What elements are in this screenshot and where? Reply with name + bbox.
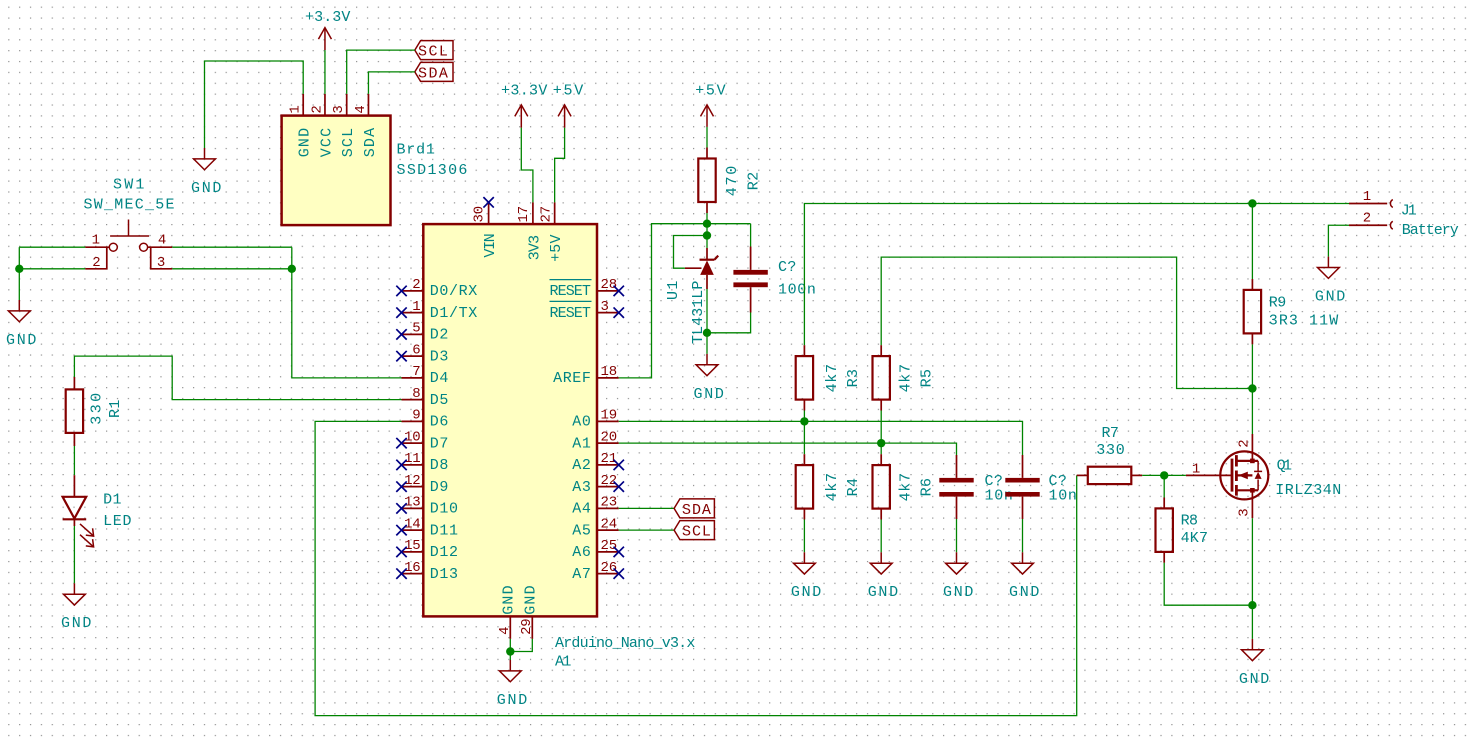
junction R2 bottom [703, 220, 711, 228]
svg-text:GND: GND [501, 585, 518, 615]
svg-text:A4: A4 [572, 501, 591, 518]
wire R9 bottom to Q1 drain [1251, 344, 1253, 434]
svg-text:D4: D4 [430, 370, 449, 387]
no-connect A2 pin 21 [614, 460, 624, 470]
svg-text:24: 24 [601, 516, 617, 532]
wire U1 anode to GND [706, 289, 708, 354]
A1 pin 26 A7 [572, 560, 618, 583]
no-connect A7 pin 26 [614, 568, 624, 578]
power +5V (Arduino) [553, 83, 584, 128]
connector J1 pin 2 [1349, 211, 1393, 230]
svg-text:3: 3 [601, 299, 609, 315]
svg-text:2: 2 [309, 105, 325, 113]
no-connect D10 [396, 503, 406, 513]
wire Q1 source to GND [1251, 518, 1253, 639]
no-connect D0/RX [396, 286, 406, 296]
wire VCC to +3.3V [324, 50, 326, 94]
svg-text:D9: D9 [430, 479, 449, 496]
ground (OLED) [191, 148, 222, 197]
svg-text:RESET: RESET [550, 305, 592, 322]
no-connect A3 pin 22 [614, 481, 624, 491]
svg-text:2: 2 [1363, 211, 1371, 227]
reference J1 [1401, 203, 1418, 220]
wire A0 to C (10n #2) [619, 421, 1023, 455]
svg-text:SSD1306: SSD1306 [397, 162, 469, 179]
svg-text:Q1: Q1 [1277, 458, 1293, 475]
A1 pin 22 A3 [572, 473, 618, 496]
svg-text:23: 23 [601, 495, 617, 511]
LED D1 [63, 475, 133, 547]
OLED display Brd1 SSD1306 [282, 116, 391, 226]
global label SDA (right) [674, 499, 714, 519]
wire R9 top [1251, 204, 1253, 280]
no-connect D13 [396, 568, 406, 578]
A1 pin 3 RESET [550, 299, 619, 322]
transistor Q1 IRLZ34N [1186, 434, 1342, 518]
A1 pin 4 GND [497, 585, 518, 639]
svg-text:A3: A3 [572, 479, 591, 496]
svg-text:R3: R3 [845, 368, 862, 387]
Brd1 pin 3 SCL [331, 94, 357, 157]
ground (J1) [1315, 257, 1346, 306]
A1 pin 29 GND [519, 585, 539, 639]
svg-text:R5: R5 [919, 368, 936, 387]
resistor R2 470 [698, 148, 762, 214]
svg-text:SW_MEC_5E: SW_MEC_5E [84, 197, 176, 214]
wire D6 to R7 (long bottom route) [315, 421, 1077, 715]
junction source node [1248, 601, 1256, 609]
resistor R4 4k7 [796, 454, 862, 519]
resistor R5 4k7 [873, 345, 936, 410]
svg-text:GND: GND [497, 692, 528, 709]
wire R5 top to Q1 drain node [881, 257, 1252, 388]
svg-text:GND: GND [868, 584, 899, 601]
svg-text:SDA: SDA [418, 65, 449, 82]
wire AREF to R2 node [619, 224, 751, 378]
A1 pin 2 D0/RX [402, 277, 478, 300]
svg-text:GND: GND [191, 180, 222, 197]
SW1 pin 1 [85, 233, 109, 249]
junction U1 anode / C node [703, 329, 711, 337]
ground (SW1 left) [6, 300, 37, 349]
svg-text:SCL: SCL [418, 44, 449, 61]
wire SCL to OLED pin3 [347, 50, 415, 94]
svg-text:R4: R4 [845, 477, 862, 496]
svg-text:14: 14 [404, 516, 420, 532]
no-connect D3 [396, 351, 406, 361]
svg-text:11: 11 [404, 451, 420, 467]
svg-text:3R3 11W: 3R3 11W [1269, 313, 1339, 330]
SW1 pin 3 [151, 247, 173, 271]
no-connect VIN [483, 197, 493, 207]
svg-text:D5: D5 [430, 392, 449, 409]
svg-text:Brd1: Brd1 [397, 142, 436, 159]
A1 pin 1 D1/TX [402, 299, 478, 322]
svg-text:A2: A2 [572, 457, 591, 474]
svg-text:GND: GND [523, 585, 540, 615]
svg-text:IRLZ34N: IRLZ34N [1275, 482, 1342, 499]
svg-text:1: 1 [288, 105, 304, 113]
power +5V (R2) [695, 83, 726, 127]
svg-text:SDA: SDA [682, 502, 712, 519]
svg-text:LED: LED [103, 513, 132, 530]
resistor R6 4k7 [873, 454, 936, 519]
svg-text:R2: R2 [746, 171, 763, 190]
reference Brd1 [397, 142, 436, 159]
svg-text:1: 1 [412, 299, 420, 315]
wire R8 bottom to source node [1164, 563, 1252, 605]
global label SCL (right) [674, 521, 714, 541]
svg-text:2: 2 [92, 255, 100, 271]
junction A0 divider [800, 417, 808, 425]
wire R5-R6 column [880, 411, 882, 455]
svg-text:18: 18 [601, 364, 617, 380]
Brd1 pin 2 VCC [309, 94, 335, 157]
wire SW1 to D4 [292, 247, 402, 378]
svg-text:VIN: VIN [482, 233, 499, 258]
reference SW1 [113, 177, 145, 194]
svg-text:100n: 100n [778, 282, 817, 299]
svg-text:19: 19 [601, 408, 617, 424]
svg-text:GND: GND [791, 584, 822, 601]
svg-text:GND: GND [297, 127, 314, 157]
svg-text:4K7: 4K7 [1181, 530, 1209, 547]
A1 pin 28 RESET [550, 277, 619, 300]
no-connect D11 [396, 525, 406, 535]
svg-text:R1: R1 [107, 399, 124, 418]
connector J1 Battery pin 1 [1349, 189, 1393, 208]
ground (R6) [868, 552, 899, 601]
svg-text:1: 1 [1192, 462, 1200, 478]
svg-text:26: 26 [601, 560, 617, 576]
svg-text:VCC: VCC [319, 127, 336, 157]
power +3.3V (Arduino) [501, 83, 548, 128]
junction battery+ / R9 [1248, 199, 1256, 207]
svg-text:D0/RX: D0/RX [430, 283, 478, 300]
svg-text:SCL: SCL [682, 524, 712, 541]
wire A5 to SCL [619, 529, 674, 531]
svg-text:GND: GND [694, 386, 725, 403]
resistor R9 3R3 11W [1244, 279, 1339, 344]
A1 pin 8 D5 [402, 386, 450, 409]
svg-text:D3: D3 [430, 348, 449, 365]
svg-text:3V3: 3V3 [526, 234, 543, 260]
svg-text:+5V: +5V [695, 83, 726, 100]
junction gate / R8 [1160, 471, 1168, 479]
A1 pin 21 A2 [572, 451, 618, 474]
svg-text:7: 7 [412, 364, 420, 380]
wire R1 to D1 [73, 446, 75, 475]
svg-text:29: 29 [519, 618, 535, 634]
A1 pin 19 A0 [572, 408, 618, 431]
wire SW1 pin2 left [19, 268, 85, 270]
wire R3-R4 column [803, 411, 805, 455]
svg-text:15: 15 [404, 538, 420, 554]
wire C10n#2 to GND [1022, 519, 1024, 552]
wire battery+ rail [804, 204, 1349, 346]
junction SW1 left [15, 265, 23, 273]
svg-text:4k7: 4k7 [824, 472, 841, 501]
svg-text:A6: A6 [572, 544, 591, 561]
svg-text:GND: GND [61, 615, 92, 632]
svg-text:2: 2 [1236, 440, 1252, 448]
A1 pin 15 D12 [402, 538, 459, 561]
svg-text:9: 9 [412, 408, 420, 424]
no-connect D8 [396, 460, 406, 470]
svg-text:D6: D6 [430, 414, 449, 431]
svg-text:+5V: +5V [553, 83, 584, 100]
ground (D1) [61, 583, 92, 632]
svg-text:D8: D8 [430, 457, 449, 474]
A1 pin 7 D4 [402, 364, 450, 387]
A1 pin 17 3V3 [516, 202, 543, 260]
junction SW1 right [288, 265, 296, 273]
wire R7 to Q1 gate [1142, 474, 1186, 476]
no-connect D12 [396, 547, 406, 557]
value Arduino_Nano_v3.x [555, 635, 696, 652]
shunt regulator U1 TL431LP [665, 248, 718, 344]
svg-text:A0: A0 [572, 414, 591, 431]
svg-text:SDA: SDA [362, 127, 379, 157]
resistor R7 330 [1077, 425, 1143, 484]
resistor R8 4K7 [1156, 498, 1209, 563]
svg-text:A1: A1 [572, 435, 591, 452]
svg-text:10n: 10n [1049, 487, 1078, 504]
wire R6 to GND [880, 520, 882, 553]
svg-text:28: 28 [601, 277, 617, 293]
A1 pin 25 A6 [572, 538, 618, 561]
no-connect D9 [396, 481, 406, 491]
ground (C 10n #1) [943, 552, 974, 601]
wire +3.3V to 3V3 [521, 128, 533, 203]
svg-text:SW1: SW1 [113, 177, 145, 194]
ground (Q1 source) [1239, 639, 1270, 688]
svg-text:10: 10 [404, 429, 420, 445]
svg-text:GND: GND [1009, 584, 1040, 601]
svg-text:4k7: 4k7 [898, 363, 915, 392]
wire U1 ref loop [674, 236, 708, 269]
A1 pin 24 A5 [572, 516, 618, 539]
svg-text:3: 3 [331, 105, 347, 113]
A1 pin 11 D8 [402, 451, 450, 474]
svg-text:R9: R9 [1269, 294, 1287, 311]
svg-text:330: 330 [89, 392, 106, 425]
A1 pin 5 D2 [402, 321, 450, 344]
svg-text:22: 22 [601, 473, 617, 489]
power +3.3V (OLED VCC) [305, 9, 351, 50]
wire D1 to GND [73, 526, 75, 583]
ground (C 10n #2) [1009, 552, 1040, 601]
A1 pin 10 D7 [402, 429, 450, 452]
A1 pin 14 D11 [402, 516, 459, 539]
svg-text:R6: R6 [919, 477, 936, 496]
svg-text:U1: U1 [665, 280, 682, 300]
svg-text:4: 4 [158, 233, 166, 249]
global label SCL (top) [415, 41, 453, 61]
no-connect D1/TX [396, 307, 406, 317]
svg-text:GND: GND [6, 332, 37, 349]
svg-text:D7: D7 [430, 435, 449, 452]
svg-text:AREF: AREF [553, 370, 591, 387]
SW1 pin 2 [85, 247, 107, 271]
svg-text:3: 3 [157, 255, 165, 271]
svg-text:+3.3V: +3.3V [501, 83, 548, 100]
wire A4 to SDA [619, 507, 674, 509]
wire SW1 pin1 left [19, 246, 85, 248]
A1 pin 16 D13 [402, 560, 459, 583]
resistor R1 330 [66, 377, 124, 446]
svg-text:330: 330 [1096, 442, 1125, 459]
wire SW1 pin4 right [172, 246, 291, 248]
svg-text:1: 1 [92, 233, 100, 249]
wire R1 top to D5 [74, 356, 401, 400]
A1 pin 6 D3 [402, 342, 450, 365]
svg-text:GND: GND [1239, 671, 1270, 688]
wire C100n bottom to U1 anode [707, 313, 751, 333]
no-connect D2 [396, 329, 406, 339]
svg-text:13: 13 [404, 495, 420, 511]
wire C10n#1 to GND [956, 519, 958, 552]
svg-text:A1: A1 [555, 653, 572, 670]
svg-text:12: 12 [404, 473, 420, 489]
Brd1 pin 4 SDA [353, 94, 379, 157]
svg-text:6: 6 [412, 342, 420, 358]
svg-text:2: 2 [412, 277, 420, 293]
A1 pin 12 D9 [402, 473, 450, 496]
svg-text:3: 3 [1236, 508, 1252, 516]
no-connect RESET pin 3 [614, 307, 624, 317]
wire J1 pin2 to GND [1328, 225, 1349, 256]
svg-text:20: 20 [601, 429, 617, 445]
svg-text:+3.3V: +3.3V [305, 9, 351, 26]
svg-text:RESET: RESET [550, 283, 592, 300]
MCU A1 Arduino_Nano_v3.x body [423, 224, 597, 616]
svg-text:Battery: Battery [1402, 222, 1460, 239]
svg-text:D10: D10 [430, 501, 459, 518]
svg-text:Arduino_Nano_v3.x: Arduino_Nano_v3.x [555, 635, 696, 652]
svg-text:GND: GND [1315, 289, 1346, 306]
SW1 pin 4 [148, 233, 173, 249]
reference A1 [555, 653, 572, 670]
A1 pin 13 D10 [402, 495, 459, 518]
svg-text:1: 1 [1363, 189, 1371, 205]
wire OLED GND pin1 [205, 61, 304, 148]
wire gate node down to R8 [1163, 475, 1165, 497]
value SW_MEC_5E [84, 197, 176, 214]
no-connect D7 [396, 438, 406, 448]
svg-text:27: 27 [539, 206, 555, 222]
svg-text:C?: C? [778, 259, 797, 276]
svg-text:R7: R7 [1102, 425, 1120, 442]
svg-text:4: 4 [497, 627, 513, 635]
A1 pin 18 AREF [553, 364, 619, 387]
svg-text:D13: D13 [430, 566, 459, 583]
capacitor C? 10n (A0) [1005, 455, 1077, 519]
no-connect A6 pin 25 [614, 547, 624, 557]
svg-text:D1: D1 [103, 492, 122, 509]
resistor R3 4k7 [796, 345, 862, 410]
svg-text:SCL: SCL [340, 127, 357, 157]
wire SDA to OLED pin4 [368, 72, 414, 94]
capacitor C? 10n (A1) [939, 455, 1013, 519]
ground (U1) [694, 354, 725, 403]
svg-text:D12: D12 [430, 544, 459, 561]
svg-text:R8: R8 [1181, 512, 1199, 529]
wire SW1 pin3 right [172, 268, 291, 270]
svg-text:17: 17 [516, 206, 532, 222]
svg-text:D2: D2 [430, 327, 449, 344]
svg-text:A7: A7 [572, 566, 591, 583]
junction U1 ref node [703, 231, 711, 239]
A1 pin 20 A1 [572, 429, 618, 452]
svg-text:D11: D11 [430, 522, 459, 539]
A1 pin 9 D6 [402, 408, 450, 431]
ground (A1) [497, 660, 528, 709]
wire R2 to U1 [706, 213, 708, 248]
no-connect RESET pin 28 [614, 286, 624, 296]
Brd1 pin 1 GND [288, 94, 314, 157]
svg-text:5: 5 [412, 321, 420, 337]
svg-text:470: 470 [724, 165, 741, 196]
wire +5V to R2 [706, 127, 708, 148]
svg-text:A5: A5 [572, 522, 591, 539]
svg-text:D1/TX: D1/TX [430, 305, 478, 322]
junction A1 GND [506, 647, 514, 655]
A1 pin 27 +5V [539, 202, 566, 262]
svg-text:4k7: 4k7 [824, 363, 841, 392]
wire +5V to pin27 [555, 128, 565, 203]
svg-text:GND: GND [943, 584, 974, 601]
wire R4 to GND [803, 520, 805, 553]
switch SW1 body [109, 220, 149, 252]
value SSD1306 [397, 162, 469, 179]
junction A1 divider [877, 439, 885, 447]
svg-text:4k7: 4k7 [898, 472, 915, 501]
wire SW1 left down [18, 247, 20, 300]
svg-text:30: 30 [471, 206, 487, 222]
capacitor C? 100n [733, 224, 816, 313]
svg-text:+5V: +5V [548, 234, 565, 262]
junction Q1 drain node [1248, 384, 1256, 392]
svg-text:8: 8 [412, 386, 420, 402]
wire A1 to C (10n #1) [619, 443, 957, 455]
ground (R4) [791, 552, 822, 601]
A1 pin 23 A4 [572, 495, 618, 518]
value Battery [1402, 222, 1460, 239]
svg-text:16: 16 [404, 560, 420, 576]
svg-text:21: 21 [601, 451, 617, 467]
global label SDA (top) [415, 62, 453, 82]
svg-text:J1: J1 [1401, 203, 1418, 220]
A1 pin 30 VIN [471, 202, 499, 257]
wire A1 GND pins [510, 639, 532, 660]
svg-text:4: 4 [353, 105, 369, 113]
svg-text:25: 25 [601, 538, 617, 554]
